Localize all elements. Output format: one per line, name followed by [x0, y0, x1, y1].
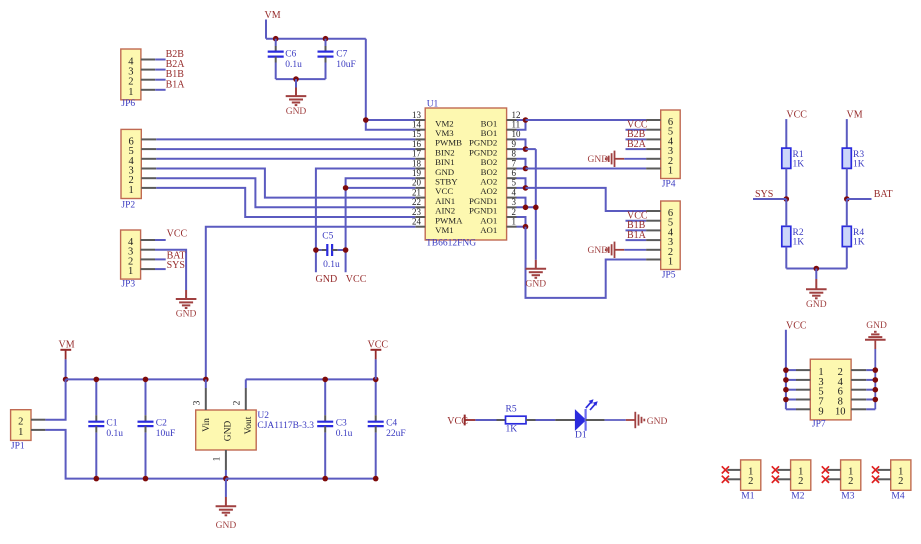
svg-text:10: 10 [835, 406, 846, 417]
svg-text:23: 23 [412, 207, 422, 217]
pin U1.1 AO1 [480, 217, 516, 236]
no-connect cross [772, 476, 779, 483]
wire [786, 199, 847, 269]
pin U1.15 PWMB [412, 129, 462, 148]
wire AO1 pair tie [517, 217, 526, 227]
svg-text:AIN1: AIN1 [435, 196, 455, 206]
resistor R5 [497, 405, 536, 435]
connector JP3 [121, 230, 141, 289]
wire VM rail [66, 378, 206, 380]
svg-text:D1: D1 [575, 430, 587, 440]
svg-text:16: 16 [412, 139, 422, 149]
pin JP2.1 [141, 187, 156, 189]
svg-text:C4: C4 [386, 419, 397, 429]
pin M1.2 [727, 478, 740, 480]
wire [155, 79, 165, 81]
pin U1.5 AO2 [480, 178, 516, 197]
svg-text:R2: R2 [793, 228, 804, 238]
pin U1.9 PGND2 [469, 139, 517, 158]
svg-text:13: 13 [412, 110, 422, 120]
connector JP7 [810, 359, 851, 430]
node VCC (JP5) [627, 211, 648, 222]
svg-text:1: 1 [668, 166, 673, 177]
svg-text:SYS: SYS [755, 189, 773, 200]
pin JP7.2 [851, 369, 875, 371]
node VM rail junction C6 [273, 36, 279, 42]
svg-text:GND: GND [216, 521, 237, 531]
pin U1.14 VM3 [412, 120, 454, 139]
node BAT (JP3) [167, 250, 186, 261]
svg-text:BO2: BO2 [481, 167, 498, 177]
power port VCC (JP7) [786, 320, 807, 409]
svg-text:10uF: 10uF [336, 60, 356, 70]
node C5 right junction [343, 247, 349, 253]
wire AO2 pair tie [517, 178, 526, 188]
pin JP4.5 [646, 129, 661, 131]
svg-text:JP5: JP5 [662, 271, 676, 281]
capacitor C3 [317, 379, 352, 478]
pin JP5.4 [646, 229, 661, 231]
power port VM (top) [265, 10, 281, 39]
node U2 gnd junction [223, 476, 229, 482]
node PGND1 junction b [533, 205, 539, 211]
wire [155, 239, 166, 241]
svg-text:2: 2 [748, 476, 753, 487]
node GND junction [873, 397, 879, 403]
ground (JP5) [588, 242, 647, 258]
svg-text:0.1u: 0.1u [285, 60, 302, 70]
pin JP6.4 [141, 59, 155, 61]
connector JP4 [661, 110, 681, 190]
wire U1 VM1 pin24 down to VM rail [206, 227, 415, 380]
ground [286, 79, 307, 117]
wire U1 GND pin18 to C5 [316, 169, 415, 273]
pin U1.22 AIN2 [412, 197, 455, 216]
pin U1.19 STBY [412, 168, 458, 187]
svg-text:1K: 1K [853, 159, 865, 169]
pin JP2.4 [141, 158, 156, 160]
wire JP2.2 to U1 AIN2 [156, 178, 415, 207]
svg-text:22: 22 [412, 197, 421, 207]
ground (U2) [216, 479, 237, 531]
svg-text:10uF: 10uF [156, 429, 176, 439]
svg-text:PGND1: PGND1 [469, 196, 497, 206]
svg-text:AO2: AO2 [480, 186, 497, 196]
svg-text:2: 2 [233, 400, 243, 405]
pin U1.11 BO1 [481, 120, 520, 139]
node STBY VCC junction [343, 185, 349, 191]
wire AO1 to JP5.1 [526, 227, 647, 298]
pin M4.1 [877, 469, 890, 471]
power port VCC (LED) [447, 415, 496, 427]
node divider ground junction [814, 266, 820, 272]
pin JP3.4 [141, 239, 155, 241]
svg-text:R4: R4 [853, 228, 864, 238]
svg-text:GND: GND [588, 246, 609, 256]
wire SYS stub [753, 198, 786, 200]
pin U1.23 PWMA [412, 207, 463, 226]
connector JP6 [121, 49, 141, 109]
pin U2.1 GND [213, 450, 226, 479]
svg-text:GND: GND [435, 167, 454, 177]
svg-text:4: 4 [512, 187, 517, 197]
pin JP3.1 [141, 268, 155, 270]
node C3 top [322, 377, 328, 383]
wire BAT stub [847, 198, 872, 200]
svg-text:VM3: VM3 [435, 128, 454, 138]
svg-text:AO1: AO1 [480, 225, 497, 235]
pin JP2.6 [141, 138, 156, 140]
svg-text:M3: M3 [841, 491, 854, 501]
no-connect cross [872, 466, 879, 473]
pin JP3.3 [141, 249, 155, 251]
svg-text:3: 3 [512, 197, 517, 207]
wire [626, 229, 647, 231]
resistor R4 [842, 226, 864, 247]
svg-text:9: 9 [512, 139, 517, 149]
svg-text:GND: GND [526, 280, 547, 290]
pin U1.7 BO2 [481, 158, 517, 177]
capacitor C7 [318, 39, 356, 79]
pin U1.16 BIN2 [412, 139, 455, 158]
svg-text:Vin: Vin [202, 418, 212, 432]
svg-text:Vout: Vout [244, 416, 254, 434]
node VCC (JP4) [627, 120, 648, 131]
pin JP7.6 [851, 389, 875, 391]
svg-text:1K: 1K [853, 238, 865, 248]
ground (JP7 inverted) [865, 321, 887, 409]
node B2B [166, 49, 185, 60]
connector JP5 [661, 201, 681, 281]
no-connect cross [822, 476, 829, 483]
svg-text:GND: GND [647, 417, 668, 427]
svg-text:22uF: 22uF [386, 429, 406, 439]
node C1 bottom [94, 476, 100, 482]
svg-text:JP4: JP4 [662, 180, 676, 190]
svg-text:BO1: BO1 [481, 128, 498, 138]
node B2A (JP4) [627, 139, 647, 150]
svg-text:1: 1 [18, 427, 23, 438]
svg-text:B2A: B2A [627, 139, 647, 150]
regulator U2 CJA1117B-3.3 [196, 410, 315, 450]
pin JP6.2 [141, 79, 155, 81]
pin U1.12 BO1 [481, 110, 521, 129]
pin JP2.3 [141, 168, 156, 170]
svg-text:12: 12 [512, 110, 521, 120]
svg-text:18: 18 [412, 158, 422, 168]
pin JP3.2 [141, 258, 155, 260]
resistor R3 [842, 148, 864, 169]
wire [266, 38, 366, 40]
ground (divider) [806, 269, 827, 310]
pin JP4.3 [646, 148, 661, 150]
wire [846, 168, 848, 199]
svg-text:0.1u: 0.1u [336, 429, 353, 439]
capacitor C5 [316, 232, 346, 270]
node C4 top [373, 377, 379, 383]
pin JP7.10 [851, 408, 875, 410]
wire [626, 239, 647, 241]
svg-text:17: 17 [412, 149, 422, 159]
node SYS (JP3) [167, 260, 185, 271]
pin JP4.2 [646, 158, 661, 160]
svg-text:C6: C6 [285, 50, 296, 60]
svg-text:BIN2: BIN2 [435, 147, 455, 157]
node VM2 junction [363, 117, 369, 123]
resistor R2 [782, 226, 804, 247]
svg-text:BAT: BAT [874, 189, 893, 200]
svg-text:1: 1 [512, 217, 517, 227]
pin U1.3 PGND1 [469, 197, 517, 216]
pin JP5.1 [646, 259, 661, 261]
wire [155, 59, 165, 61]
node GND junction [873, 377, 879, 383]
pin JP4.6 [646, 119, 661, 121]
svg-text:BO1: BO1 [481, 118, 498, 128]
svg-text:VM1: VM1 [435, 225, 454, 235]
power port VCC (divider) [786, 109, 807, 148]
IC U1 TB6612FNG [425, 99, 506, 248]
connector M2 [791, 460, 811, 501]
svg-text:PGND2: PGND2 [469, 138, 497, 148]
wire U1 STBY pin19 [346, 178, 416, 188]
node VCC label (C5 right) [346, 274, 367, 285]
wire [155, 268, 166, 270]
pin JP7.1 [786, 369, 810, 371]
wire PGND2 pair tie [517, 139, 526, 149]
svg-text:AO1: AO1 [480, 215, 497, 225]
node VM rail junction C7 [323, 36, 329, 42]
node GND label (C5 left) [316, 274, 338, 285]
node B1A [166, 79, 186, 90]
node BO1 junction [523, 117, 529, 123]
wire Vout rail [246, 378, 376, 380]
svg-text:M1: M1 [741, 491, 754, 501]
svg-text:C3: C3 [336, 419, 347, 429]
pin U1.17 BIN1 [412, 149, 455, 168]
node VCC junction [783, 387, 789, 393]
node SYS label [755, 189, 773, 200]
svg-text:R3: R3 [853, 150, 864, 160]
pin U1.13 VM2 [412, 110, 454, 129]
pin JP5.3 [646, 239, 661, 241]
pin JP2.2 [141, 177, 156, 179]
pin JP1.2 [31, 419, 45, 421]
pin JP7.3 [786, 379, 810, 381]
node BAT label [874, 189, 893, 200]
pin JP2.5 [141, 148, 156, 150]
svg-text:VCC: VCC [167, 228, 188, 239]
wire [785, 168, 787, 199]
node GND junction [873, 387, 879, 393]
ground (LED) [605, 412, 668, 428]
connector JP2 [121, 129, 141, 210]
svg-text:JP7: JP7 [812, 420, 826, 430]
pin U1.18 GND [412, 158, 454, 177]
svg-text:SYS: SYS [167, 260, 185, 271]
node BO2 junction [523, 166, 529, 172]
node B1B (JP5) [627, 220, 646, 231]
node AO2 junction [523, 185, 529, 191]
node PGND2 junction [523, 146, 529, 152]
no-connect cross [772, 466, 779, 473]
power port VM (bottom) [59, 340, 75, 380]
wire JP2.4 to U1 BIN1 [156, 158, 415, 160]
wire [155, 258, 166, 260]
svg-text:M2: M2 [791, 491, 804, 501]
node B1B [166, 69, 185, 80]
connector M4 [891, 460, 911, 501]
svg-text:GND: GND [316, 274, 338, 285]
pin M4.2 [877, 478, 890, 480]
wire VM rail to U1 VM2/VM3 [366, 39, 416, 130]
power port VCC (bottom) [368, 340, 389, 380]
pin U2.2 Vout [233, 379, 246, 410]
wire [626, 148, 647, 150]
node PGND1 junction a [523, 205, 529, 211]
pin JP7.7 [786, 399, 810, 401]
node GND junction [873, 367, 879, 373]
node C4 bottom [373, 476, 379, 482]
svg-text:2: 2 [798, 476, 803, 487]
svg-text:VM: VM [847, 109, 863, 120]
svg-text:2: 2 [848, 476, 853, 487]
connector M3 [841, 460, 861, 501]
svg-text:24: 24 [412, 217, 422, 227]
svg-text:GND: GND [806, 300, 827, 310]
node VM rail junction [63, 377, 69, 383]
wire BO1 to JP4.6 [526, 119, 647, 121]
svg-text:GND: GND [224, 421, 234, 442]
ground (JP3) [176, 290, 197, 320]
svg-text:BO2: BO2 [481, 157, 498, 167]
svg-text:0.1u: 0.1u [323, 260, 340, 270]
ground (below U1) [526, 260, 547, 290]
pin U2.3 Vin [193, 379, 206, 410]
pin JP6.1 [141, 89, 155, 91]
pin JP5.2 [646, 249, 661, 251]
node VCC junction [783, 377, 789, 383]
svg-text:9: 9 [818, 406, 823, 417]
svg-text:B1A: B1A [627, 230, 647, 241]
svg-text:TB6612FNG: TB6612FNG [426, 238, 476, 248]
svg-text:VCC: VCC [435, 186, 453, 196]
svg-text:PWMB: PWMB [435, 138, 462, 148]
svg-text:3: 3 [193, 400, 203, 405]
capacitor C2 [138, 379, 176, 478]
node C2 bottom [143, 476, 149, 482]
svg-text:JP3: JP3 [121, 279, 135, 289]
svg-text:AO2: AO2 [480, 177, 497, 187]
svg-text:VCC: VCC [786, 320, 807, 331]
pin JP7.8 [851, 399, 875, 401]
svg-text:STBY: STBY [435, 177, 458, 187]
wire [536, 419, 556, 421]
wire AO2 to JP5.6 [526, 188, 647, 211]
svg-text:R5: R5 [506, 405, 517, 415]
capacitor C6 [268, 39, 302, 79]
svg-text:1: 1 [668, 257, 673, 268]
svg-text:M4: M4 [891, 491, 904, 501]
svg-text:B1A: B1A [166, 79, 186, 90]
svg-text:AIN2: AIN2 [435, 206, 455, 216]
svg-text:1: 1 [129, 185, 134, 196]
node VCC junction [783, 367, 789, 373]
wire U1 VCC pin20 to C5 [346, 188, 416, 272]
capacitor C4 [368, 379, 406, 478]
svg-text:C2: C2 [156, 419, 167, 429]
svg-text:1: 1 [128, 87, 133, 98]
no-connect cross [722, 476, 729, 483]
resistor R1 [782, 148, 804, 169]
svg-text:7: 7 [512, 158, 517, 168]
svg-text:VCC: VCC [346, 274, 367, 285]
node B2B (JP4) [627, 129, 646, 140]
svg-text:BIN1: BIN1 [435, 157, 455, 167]
pin JP1.1 [31, 429, 45, 431]
svg-text:2: 2 [898, 476, 903, 487]
svg-text:1K: 1K [506, 425, 518, 435]
wire [785, 199, 787, 269]
pin U1.10 PGND2 [469, 129, 521, 148]
svg-text:JP6: JP6 [121, 99, 135, 109]
node VCC junction [783, 397, 789, 403]
pin U1.6 AO2 [480, 168, 516, 187]
wire [626, 138, 647, 140]
pin JP4.4 [646, 138, 661, 140]
wire [626, 129, 647, 131]
svg-text:1: 1 [128, 266, 133, 277]
connector M1 [741, 460, 761, 501]
pin U1.8 BO2 [481, 149, 517, 168]
node C3 bottom [322, 476, 328, 482]
svg-text:VM2: VM2 [435, 118, 454, 128]
wire JP3.3 to ground [155, 250, 186, 290]
wire PGND2 to ground rail [526, 149, 536, 260]
svg-text:JP1: JP1 [11, 441, 25, 451]
wire BO2 to JP4.1 [526, 168, 647, 170]
svg-text:PGND1: PGND1 [469, 206, 497, 216]
svg-text:2: 2 [512, 207, 517, 217]
wire JP2.6 to U1 PWMB [156, 138, 415, 140]
wire [626, 220, 647, 222]
pin U1.4 PGND1 [469, 187, 517, 206]
svg-text:R1: R1 [793, 150, 804, 160]
led D1 [555, 399, 604, 440]
svg-text:C1: C1 [106, 419, 117, 429]
wire BO2 pair tie [517, 159, 526, 169]
wire [155, 89, 165, 91]
svg-text:8: 8 [512, 149, 517, 159]
no-connect cross [872, 476, 879, 483]
connector JP1 [11, 410, 31, 452]
node C6 C7 ground junction [293, 76, 299, 82]
node C1 top [94, 377, 100, 383]
svg-text:CJA1117B-3.3: CJA1117B-3.3 [257, 421, 314, 431]
pin U1.21 AIN1 [412, 187, 455, 206]
ground (JP4) [588, 151, 647, 167]
node VM1 rail junction [203, 377, 209, 383]
svg-text:C7: C7 [336, 50, 347, 60]
pin JP6.3 [141, 69, 155, 71]
pin U1.2 AO1 [480, 207, 516, 226]
pin JP7.4 [851, 379, 875, 381]
node VCC (JP3) [167, 228, 188, 239]
wire PGND1 pair tie [517, 198, 536, 208]
pin JP7.5 [786, 389, 810, 391]
svg-text:U1: U1 [427, 99, 439, 109]
power port VM (divider) [847, 109, 863, 148]
